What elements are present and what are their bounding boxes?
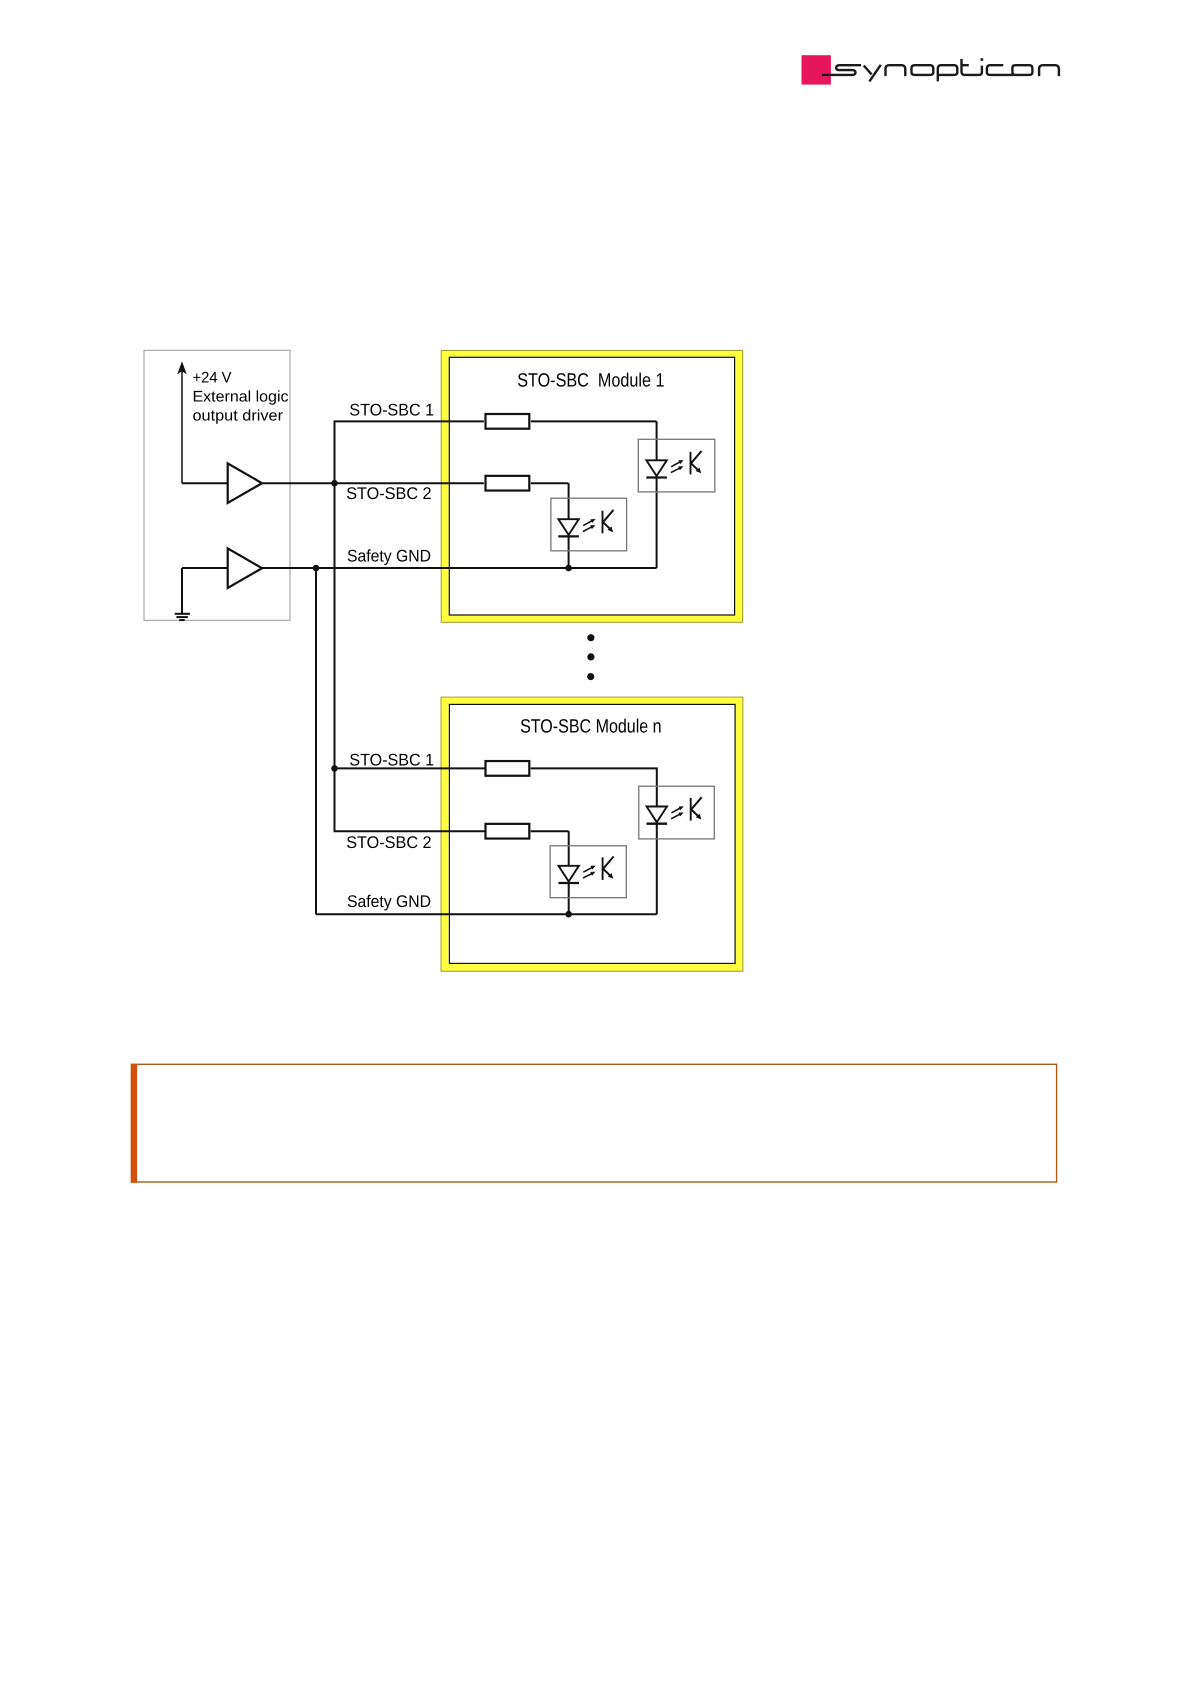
svg-text:output driver: output driver <box>193 408 284 425</box>
svg-text:Safety GND: Safety GND <box>347 546 431 565</box>
svg-text:STO-SBC 1: STO-SBC 1 <box>349 401 434 420</box>
svg-text:STO-SBC 2: STO-SBC 2 <box>346 484 431 503</box>
svg-text:STO-SBC 1: STO-SBC 1 <box>349 750 434 769</box>
svg-text:STO-SBC 2: STO-SBC 2 <box>346 833 431 852</box>
svg-text:+24 V: +24 V <box>193 370 233 387</box>
svg-text:External logic: External logic <box>193 389 289 406</box>
svg-text:STO-SBC Module 1: STO-SBC Module 1 <box>517 370 664 391</box>
svg-text:STO-SBC Module n: STO-SBC Module n <box>520 717 662 738</box>
svg-text:Safety GND: Safety GND <box>347 892 431 911</box>
